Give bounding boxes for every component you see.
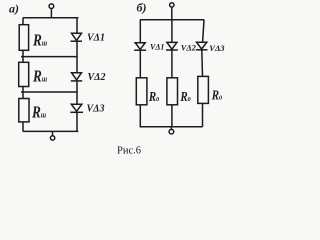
wire VD1 to node1 [76, 41, 78, 72]
wire R3 to bottom bus [22, 122, 24, 131]
wire node2 horizontal [21, 91, 78, 93]
wire bottom bus (b) [140, 126, 203, 128]
wire VD1 to R01 [139, 50, 141, 78]
resistor R02 [167, 78, 178, 105]
resistor R1 (Rsh) [19, 25, 28, 51]
svg-text:VΔ1: VΔ1 [150, 42, 164, 51]
wire top bus (b) [140, 19, 204, 21]
terminal bottom-left circuit [52, 131, 54, 135]
wire VD2 to R02 [171, 50, 173, 78]
wire R2 to node2 [22, 87, 24, 99]
wire VD3 to R03 [201, 50, 204, 77]
svg-text:VΔ2: VΔ2 [88, 72, 106, 83]
wire VD3 to bottom bus [76, 112, 78, 131]
resistor R01 [136, 78, 147, 105]
wire branch3 to VD3 [203, 20, 204, 42]
terminal top-left circuit [49, 4, 54, 9]
svg-text:Рис.6: Рис.6 [117, 146, 141, 157]
wire right rail top [76, 18, 78, 34]
terminal top-right circuit [170, 3, 174, 7]
svg-text:VΔ3: VΔ3 [87, 104, 105, 115]
svg-text:VΔ3: VΔ3 [209, 43, 225, 53]
wire terminal to top bus [50, 8, 52, 17]
resistor R2 (Rsh) [19, 62, 29, 86]
wire branch2 to VD2 [171, 20, 173, 43]
wire R1 to node1 [22, 50, 24, 62]
wire left rail to R1 [22, 18, 24, 25]
wire R02 to bottom bus (b) [171, 105, 173, 127]
svg-text:VΔ1: VΔ1 [87, 33, 105, 44]
terminal bottom-right circuit [170, 127, 172, 130]
wire VD2 to node2 [76, 81, 78, 104]
diode VD2 (a) [72, 73, 82, 80]
wire node1 horizontal [21, 56, 78, 58]
diode VD2 (b) [167, 42, 177, 49]
diode VD3 (b) [197, 42, 207, 49]
resistor R3 (Rsh) [19, 99, 29, 122]
resistor R03 [198, 76, 209, 103]
svg-text:а): а) [9, 1, 19, 15]
svg-text:VΔ2: VΔ2 [181, 43, 197, 53]
diode VD1 (a) [72, 33, 82, 40]
diode VD3 (a) [71, 104, 82, 111]
wire terminal to top bus (b) [171, 7, 173, 20]
svg-text:б): б) [137, 1, 147, 15]
wire top bus (a) [23, 17, 79, 19]
wire bottom bus (a) [23, 130, 79, 132]
wire R01 to bottom bus (b) [139, 105, 141, 127]
wire R03 to bottom bus (b) [202, 103, 204, 126]
diode VD1 (b) [135, 43, 145, 50]
wire branch1 to VD1 [139, 20, 141, 43]
